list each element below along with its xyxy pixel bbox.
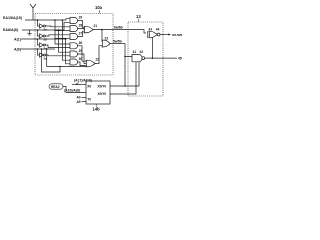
svg-text:EA15/A(15): EA15/A(15) xyxy=(3,16,23,20)
wire row1 xyxy=(25,19,66,21)
wire or22 out xyxy=(95,46,102,64)
dashed box 13 xyxy=(128,22,163,96)
wire or23 out xyxy=(110,43,125,45)
and gate 28 xyxy=(70,24,82,32)
node row4-tap xyxy=(37,48,39,50)
node v4-row3 xyxy=(65,38,67,40)
wire inv1 out xyxy=(45,25,70,28)
svg-text:29: 29 xyxy=(79,16,83,20)
wire crossbar v1 xyxy=(55,20,70,44)
wire inv2 out xyxy=(45,35,70,36)
or gate 23 xyxy=(102,30,110,47)
inverter 2d xyxy=(37,49,47,60)
label 10a xyxy=(95,5,103,14)
svg-text:42: 42 xyxy=(140,50,144,54)
label A0 pin xyxy=(77,96,87,100)
node or21 branch xyxy=(101,29,103,31)
svg-text:EA8/A(8): EA8/A(8) xyxy=(3,28,19,32)
label A5 pin xyxy=(77,100,87,104)
xor gate 43 xyxy=(147,27,157,37)
label (A17)/A(16) xyxy=(74,79,92,85)
svg-text:A5: A5 xyxy=(77,100,81,104)
svg-text:2a: 2a xyxy=(44,27,48,31)
wire nand out xyxy=(145,57,177,59)
node wrap join xyxy=(59,66,61,68)
wire g3 top input xyxy=(55,37,70,39)
and gate 26 xyxy=(70,41,82,49)
and gate 25 xyxy=(70,49,82,57)
node net5 and-tap xyxy=(124,56,126,58)
svg-text:21: 21 xyxy=(94,24,98,28)
wire row2 xyxy=(22,29,58,31)
node row1-tap xyxy=(37,19,39,21)
and gate 30 xyxy=(70,57,82,65)
wire g5 out xyxy=(78,54,87,63)
wire g1 top input xyxy=(66,19,70,20)
wire row4 outer wrap xyxy=(42,49,61,72)
node v1-row1 xyxy=(54,19,56,21)
svg-text:28: 28 xyxy=(79,24,83,28)
label 13 xyxy=(136,14,141,22)
inverter 2b xyxy=(37,30,47,41)
label 14b xyxy=(93,104,101,112)
wire g2 out xyxy=(78,29,85,30)
wire crossbar v4 xyxy=(66,39,70,64)
wire row4 wrap to or22 xyxy=(47,49,86,67)
node row2-tap xyxy=(37,29,39,31)
or gate 22 xyxy=(86,58,99,67)
svg-text:T0: T0 xyxy=(87,98,91,102)
svg-text:41: 41 xyxy=(133,50,137,54)
svg-text:X0: X0 xyxy=(87,84,91,88)
svg-text:W1/W8: W1/W8 xyxy=(172,33,182,37)
antenna xyxy=(30,4,36,20)
wire crossbar v3 xyxy=(62,20,70,60)
svg-text:A(1): A(1) xyxy=(14,37,22,41)
svg-text:10a: 10a xyxy=(95,5,103,10)
node v2-row2 xyxy=(58,29,60,31)
wire block out B up to nand underside xyxy=(110,62,136,94)
inverter 2a xyxy=(37,20,47,31)
svg-text:23: 23 xyxy=(105,36,109,40)
svg-text:26: 26 xyxy=(79,41,83,45)
wire block in 2 from oval xyxy=(63,87,86,93)
ground symbol on row 2 xyxy=(28,30,32,35)
wire or21 out xyxy=(93,29,113,31)
wire net 6 to right box xyxy=(113,30,146,33)
wire g6 out xyxy=(78,62,87,66)
svg-text:6a/6b: 6a/6b xyxy=(114,26,123,30)
and gate 41 xyxy=(132,50,142,62)
and gate 27 xyxy=(70,32,82,40)
svg-text:44: 44 xyxy=(156,27,160,31)
svg-text:(A17)/A(16): (A17)/A(16) xyxy=(74,79,92,83)
svg-text:5a/5b: 5a/5b xyxy=(113,40,122,44)
wire row4 xyxy=(21,48,55,50)
wire block out A up to nand underside xyxy=(110,62,139,86)
inverter 2c xyxy=(37,39,47,50)
and gate 29 xyxy=(70,16,82,24)
or gate 21 xyxy=(84,24,97,33)
wire g3 out xyxy=(78,31,85,36)
oval source REA2 xyxy=(49,84,63,89)
inverter bubble 44 xyxy=(156,27,160,35)
wire g1 out xyxy=(78,21,85,28)
node row4 wrap xyxy=(46,48,48,50)
wire g4 out xyxy=(78,46,87,61)
wire inv4 out xyxy=(45,54,70,57)
svg-text:45: 45 xyxy=(178,57,182,61)
inverter bubble 42 xyxy=(140,50,145,59)
node net5 joins outA xyxy=(124,85,126,87)
svg-text:A(0): A(0) xyxy=(14,47,22,51)
svg-text:27: 27 xyxy=(79,32,83,36)
register block 14b xyxy=(86,81,110,104)
svg-text:X0/Y0: X0/Y0 xyxy=(98,92,107,96)
svg-text:(A16)/A(8): (A16)/A(8) xyxy=(64,89,80,93)
svg-text:X0/Y0: X0/Y0 xyxy=(98,84,107,88)
wire inv3 out xyxy=(45,45,70,48)
wire block in 1 xyxy=(72,84,86,86)
svg-text:2b: 2b xyxy=(44,37,48,41)
wire nand-out branch up to xnor underside xyxy=(152,38,154,59)
svg-text:REA2: REA2 xyxy=(51,85,60,89)
wire net 5 branch down xyxy=(125,44,132,87)
wire xnor out with arrow xyxy=(160,34,171,36)
wire g1 bottom input xyxy=(58,22,70,30)
wire g2 bottom input xyxy=(55,30,70,32)
svg-text:43: 43 xyxy=(149,27,153,31)
dashed box 10a xyxy=(35,14,113,76)
wire crossbar v2 xyxy=(58,30,70,52)
node row4 outer xyxy=(41,48,43,50)
node row3-tap xyxy=(37,38,39,40)
svg-text:14b: 14b xyxy=(93,107,101,112)
node nand branch xyxy=(152,57,154,59)
node v3-row1 xyxy=(62,19,64,21)
wire row3 xyxy=(21,38,66,40)
svg-text:13: 13 xyxy=(136,14,141,19)
